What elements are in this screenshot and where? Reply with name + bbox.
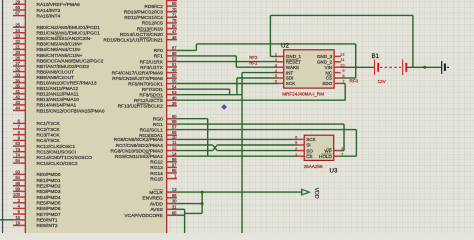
svg-text:RB6/OCFA/AN6/EMUC2/PGC2: RB6/OCFA/AN6/EMUC2/PGC2 bbox=[37, 58, 104, 64]
svg-text:66: 66 bbox=[15, 5, 20, 10]
svg-text:90: 90 bbox=[172, 114, 177, 119]
svg-text:RC12/CLKI/OSC1: RC12/CLKI/OSC1 bbox=[37, 144, 76, 150]
svg-text:RG8/CN10/SDO2/PMA3: RG8/CN10/SDO2/PMA3 bbox=[111, 148, 164, 154]
svg-text:21: 21 bbox=[15, 45, 20, 50]
svg-text:RE3/PMD3: RE3/PMD3 bbox=[37, 189, 61, 195]
svg-text:26: 26 bbox=[15, 56, 20, 61]
svg-text:RD9/IC2: RD9/IC2 bbox=[144, 4, 163, 10]
svg-text:30: 30 bbox=[172, 199, 177, 204]
svg-text:53: 53 bbox=[172, 90, 177, 95]
svg-text:RB13/AN13/PMA10: RB13/AN13/PMA10 bbox=[37, 97, 80, 103]
svg-text:89: 89 bbox=[172, 119, 177, 124]
svg-text:93: 93 bbox=[15, 170, 20, 175]
svg-text:RB9/AN9/C2OUT: RB9/AN9/C2OUT bbox=[37, 75, 75, 81]
svg-text:U3: U3 bbox=[330, 168, 338, 175]
svg-text:35: 35 bbox=[15, 83, 20, 88]
svg-text:RA15/INT4: RA15/INT4 bbox=[37, 13, 61, 19]
svg-text:RG2/SCL1: RG2/SCL1 bbox=[140, 127, 164, 133]
svg-text:87: 87 bbox=[172, 46, 177, 51]
svg-text:14: 14 bbox=[172, 151, 177, 156]
svg-text:67: 67 bbox=[15, 11, 20, 16]
svg-text:23: 23 bbox=[15, 33, 20, 38]
svg-text:95: 95 bbox=[172, 168, 177, 173]
svg-text:RD10/PMCS2/IC3: RD10/PMCS2/IC3 bbox=[124, 10, 163, 16]
svg-text:19: 19 bbox=[15, 221, 20, 226]
svg-text:RB2/CN4/SS1/AN2/C2IN-: RB2/CN4/SS1/AN2/C2IN- bbox=[37, 36, 93, 42]
svg-text:49: 49 bbox=[172, 68, 177, 73]
svg-text:RD13/CN19: RD13/CN19 bbox=[137, 26, 163, 32]
svg-text:INT: INT bbox=[286, 70, 294, 75]
svg-text:54: 54 bbox=[172, 84, 177, 89]
svg-text:RB1/CN3/AN1/EMUC1/PGC1: RB1/CN3/AN1/EMUC1/PGC1 bbox=[37, 31, 101, 37]
svg-text:RC4/T5CK: RC4/T5CK bbox=[37, 138, 61, 144]
svg-text:13: 13 bbox=[172, 187, 177, 192]
svg-text:RG14: RG14 bbox=[150, 171, 163, 177]
svg-text:RG9/CN11/SS2/PMA2: RG9/CN11/SS2/PMA2 bbox=[115, 154, 163, 160]
svg-text:33: 33 bbox=[15, 72, 20, 77]
svg-text:RF6/INT0/SCK1: RF6/INT0/SCK1 bbox=[128, 81, 163, 87]
svg-text:WAKE: WAKE bbox=[286, 65, 299, 70]
svg-text:71: 71 bbox=[172, 12, 177, 17]
svg-text:RESET: RESET bbox=[286, 60, 302, 65]
svg-text:RB14/AN14/PMA1: RB14/AN14/PMA1 bbox=[37, 103, 77, 109]
svg-text:42: 42 bbox=[15, 94, 20, 99]
svg-text:GND_3: GND_3 bbox=[317, 54, 333, 59]
svg-text:RE6/PMD6: RE6/PMD6 bbox=[37, 206, 61, 212]
svg-text:SI: SI bbox=[306, 143, 310, 148]
svg-text:12: 12 bbox=[340, 52, 345, 57]
svg-text:RE8/INT1: RE8/INT1 bbox=[37, 218, 58, 224]
svg-text:10: 10 bbox=[172, 135, 177, 140]
svg-text:RD12/IC5: RD12/IC5 bbox=[142, 21, 163, 27]
svg-text:MCLR: MCLR bbox=[149, 190, 163, 196]
svg-text:RG13: RG13 bbox=[150, 165, 163, 171]
svg-text:55: 55 bbox=[172, 79, 177, 84]
svg-text:70: 70 bbox=[172, 7, 177, 12]
svg-text:VCAP/VDDCORE: VCAP/VDDCORE bbox=[124, 213, 162, 219]
svg-text:74: 74 bbox=[15, 153, 20, 158]
svg-text:63: 63 bbox=[15, 141, 20, 146]
svg-text:RE5/PMD5: RE5/PMD5 bbox=[37, 201, 61, 207]
svg-text:73: 73 bbox=[15, 147, 20, 152]
svg-text:RG12: RG12 bbox=[150, 160, 163, 166]
svg-text:85: 85 bbox=[172, 210, 177, 215]
svg-text:RC3/T4CK: RC3/T4CK bbox=[37, 133, 61, 139]
svg-text:RC2/T3CK: RC2/T3CK bbox=[37, 127, 61, 133]
svg-text:SCK: SCK bbox=[306, 137, 316, 142]
svg-text:96: 96 bbox=[172, 157, 177, 162]
svg-text:MRF24J40MA-I_RM: MRF24J40MA-I_RM bbox=[282, 92, 324, 97]
svg-text:99: 99 bbox=[15, 187, 20, 192]
svg-text:RF4/CN17/U2RX/PMA9: RF4/CN17/U2RX/PMA9 bbox=[112, 70, 164, 76]
svg-text:SO: SO bbox=[306, 148, 313, 153]
svg-text:18: 18 bbox=[15, 215, 20, 220]
svg-text:RF2/U1RX: RF2/U1RX bbox=[140, 59, 164, 65]
svg-text:RF5/CN18/U2TX/PMA8: RF5/CN18/U2TX/PMA8 bbox=[112, 76, 163, 82]
svg-text:RB11/AN11/PMA12: RB11/AN11/PMA12 bbox=[37, 86, 79, 92]
svg-text:12: 12 bbox=[172, 146, 177, 151]
svg-text:88: 88 bbox=[172, 51, 177, 56]
svg-text:RB4/CN6/AN4/C1IN-: RB4/CN6/AN4/C1IN- bbox=[37, 47, 82, 53]
svg-text:VIN: VIN bbox=[325, 65, 333, 70]
svg-text:79: 79 bbox=[172, 18, 177, 23]
svg-text:RC1/T2CK: RC1/T2CK bbox=[37, 121, 61, 127]
svg-text:97: 97 bbox=[172, 163, 177, 168]
svg-text:100: 100 bbox=[13, 192, 21, 197]
svg-text:ENVREG: ENVREG bbox=[143, 196, 164, 202]
svg-text:SCK: SCK bbox=[286, 81, 296, 86]
svg-text:20: 20 bbox=[15, 50, 20, 55]
svg-text:U2: U2 bbox=[281, 42, 289, 49]
svg-text:52: 52 bbox=[172, 57, 177, 62]
svg-text:25: 25 bbox=[15, 22, 20, 27]
svg-text:RE7/PMD7: RE7/PMD7 bbox=[37, 212, 61, 218]
svg-text:RD11/PMCS1/IC4: RD11/PMCS1/IC4 bbox=[124, 15, 163, 21]
svg-text:57: 57 bbox=[172, 125, 177, 130]
svg-text:50: 50 bbox=[172, 73, 177, 78]
svg-text:RF2: RF2 bbox=[249, 55, 258, 60]
svg-text:RF8/SDO1: RF8/SDO1 bbox=[139, 93, 163, 99]
svg-text:27: 27 bbox=[15, 61, 20, 66]
svg-text:CS: CS bbox=[326, 76, 332, 81]
svg-text:64: 64 bbox=[15, 158, 20, 163]
svg-text:24: 24 bbox=[15, 28, 20, 33]
svg-text:RB10/AN10/CVREF/PMA13: RB10/AN10/CVREF/PMA13 bbox=[37, 81, 97, 87]
svg-text:40: 40 bbox=[172, 95, 177, 100]
svg-text:GND_1: GND_1 bbox=[286, 54, 302, 59]
svg-text:25AA256: 25AA256 bbox=[304, 164, 323, 169]
svg-text:47: 47 bbox=[172, 29, 177, 34]
svg-text:RE2/PMD2: RE2/PMD2 bbox=[37, 184, 61, 190]
svg-text:RE9/INT2: RE9/INT2 bbox=[37, 223, 58, 229]
svg-text:RG1: RG1 bbox=[153, 122, 163, 128]
svg-text:RG6/CN8/SCK2/PMA5: RG6/CN8/SCK2/PMA5 bbox=[114, 137, 163, 143]
svg-text:RB5/CN7/AN5/C1IN+: RB5/CN7/AN5/C1IN+ bbox=[37, 53, 83, 59]
svg-text:39: 39 bbox=[172, 101, 177, 106]
svg-text:31: 31 bbox=[172, 204, 177, 209]
svg-text:SDI: SDI bbox=[286, 76, 294, 81]
svg-text:29: 29 bbox=[15, 0, 20, 4]
svg-text:AVDD: AVDD bbox=[150, 201, 164, 207]
svg-text:RE1/PMD1: RE1/PMD1 bbox=[37, 178, 61, 184]
svg-text:RG0: RG0 bbox=[153, 117, 163, 123]
svg-text:RF7/SDI1: RF7/SDI1 bbox=[142, 87, 163, 93]
svg-text:SDO: SDO bbox=[322, 81, 332, 86]
svg-text:41: 41 bbox=[15, 89, 20, 94]
svg-text:CS: CS bbox=[306, 154, 312, 159]
svg-text:GND_2: GND_2 bbox=[317, 60, 333, 65]
svg-text:34: 34 bbox=[15, 78, 20, 83]
svg-text:RF13/U2RTS/BCLK2: RF13/U2RTS/BCLK2 bbox=[118, 104, 164, 110]
svg-text:RF12/U2CTS: RF12/U2CTS bbox=[134, 98, 163, 104]
svg-text:RB15/CN12/OCFB/AN15/PMA0: RB15/CN12/OCFB/AN15/PMA0 bbox=[37, 108, 105, 114]
svg-text:RF0: RF0 bbox=[154, 48, 163, 54]
svg-text:RB3/CN5/AN3/C2IN+: RB3/CN5/AN3/C2IN+ bbox=[37, 42, 83, 48]
svg-text:NC: NC bbox=[326, 70, 333, 75]
svg-text:RB7/AN7/EMUD2/PGD2: RB7/AN7/EMUD2/PGD2 bbox=[37, 64, 90, 70]
svg-text:WP: WP bbox=[324, 148, 331, 153]
svg-text:RC13/CN1/SOSCI: RC13/CN1/SOSCI bbox=[37, 150, 76, 156]
svg-text:RC14/CN0/T1CK/SOSCO: RC14/CN0/T1CK/SOSCO bbox=[37, 155, 93, 161]
svg-text:86: 86 bbox=[172, 193, 177, 198]
svg-text:32: 32 bbox=[15, 67, 20, 72]
svg-text:RA14/INT3: RA14/INT3 bbox=[37, 8, 61, 14]
svg-text:44: 44 bbox=[15, 106, 20, 111]
svg-text:RB12/AN12/PMA11: RB12/AN12/PMA11 bbox=[37, 92, 79, 98]
svg-text:RF3/U1TX: RF3/U1TX bbox=[140, 65, 163, 71]
svg-text:RE0/PMD0: RE0/PMD0 bbox=[37, 172, 61, 178]
svg-text:51: 51 bbox=[172, 62, 177, 67]
svg-text:98: 98 bbox=[15, 181, 20, 186]
svg-text:80: 80 bbox=[172, 24, 177, 29]
svg-text:10: 10 bbox=[340, 62, 345, 67]
svg-text:RE4/PMD4: RE4/PMD4 bbox=[37, 195, 61, 201]
svg-text:11: 11 bbox=[172, 140, 177, 145]
svg-text:69: 69 bbox=[172, 1, 177, 6]
svg-text:RC15/CLKO/OSC2: RC15/CLKO/OSC2 bbox=[37, 161, 78, 167]
svg-text:RF0: RF0 bbox=[350, 79, 359, 84]
svg-text:RG7/CN9/SDI2/PMA4: RG7/CN9/SDI2/PMA4 bbox=[116, 143, 164, 149]
svg-text:43: 43 bbox=[15, 100, 20, 105]
svg-text:RB8/AN8/C1OUT: RB8/AN8/C1OUT bbox=[37, 69, 75, 75]
svg-text:RD15/BCLK1/U1RTS/CN21: RD15/BCLK1/U1RTS/CN21 bbox=[103, 38, 163, 44]
svg-text:RG15: RG15 bbox=[150, 176, 163, 182]
svg-text:HOLD: HOLD bbox=[319, 154, 332, 159]
svg-text:RB0/CN2/AN0/EMUD1/PGD1: RB0/CN2/AN0/EMUD1/PGD1 bbox=[37, 25, 101, 31]
svg-text:RF1: RF1 bbox=[154, 54, 163, 60]
svg-text:AVSS: AVSS bbox=[150, 207, 162, 213]
svg-text:RA10/VREF+/PMA6: RA10/VREF+/PMA6 bbox=[37, 2, 81, 8]
svg-text:B1: B1 bbox=[372, 53, 380, 60]
svg-text:RD14/U1CTS/CN20: RD14/U1CTS/CN20 bbox=[120, 32, 163, 38]
svg-text:48: 48 bbox=[172, 35, 177, 40]
svg-text:94: 94 bbox=[15, 175, 20, 180]
svg-text:RF1: RF1 bbox=[249, 61, 258, 66]
svg-text:VDD: VDD bbox=[313, 188, 319, 199]
svg-text:22: 22 bbox=[15, 39, 20, 44]
svg-text:12V: 12V bbox=[378, 79, 387, 84]
